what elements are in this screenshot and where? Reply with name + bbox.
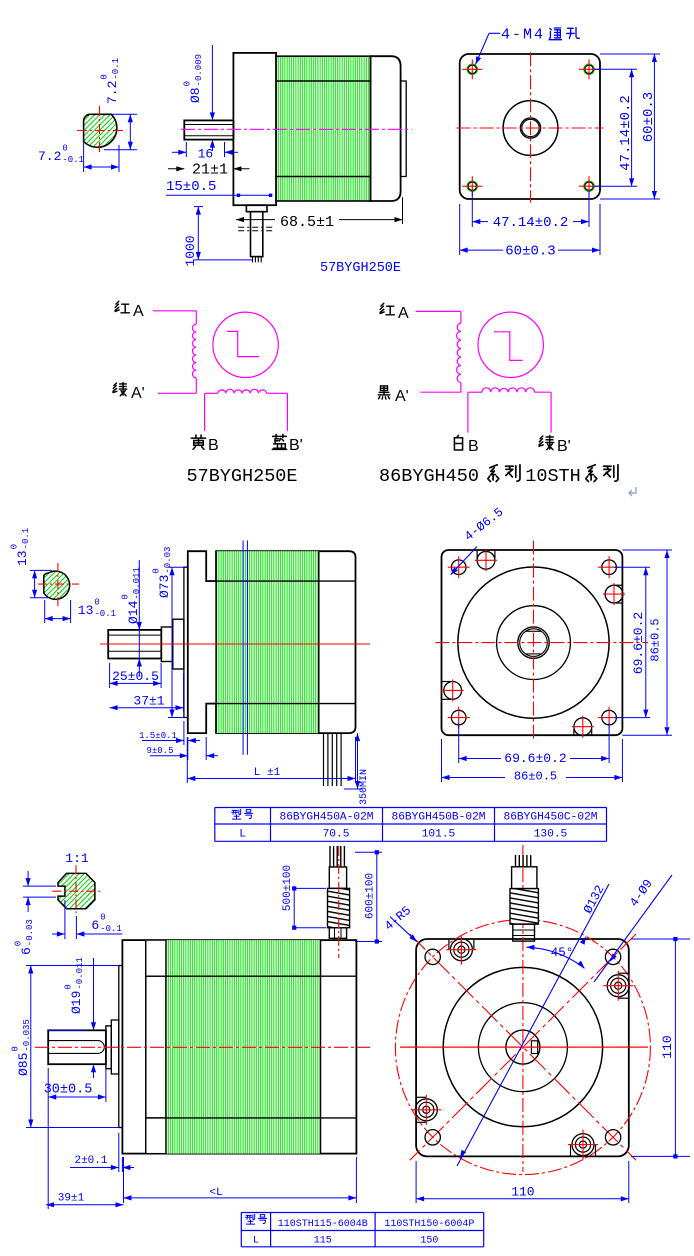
86 front view: 4 corner pocket holes [476,550,478,558]
dimension 37±1 [183,673,185,712]
svg-text:115: 115 [314,1236,332,1247]
svg-text:9±0.5: 9±0.5 [146,746,173,756]
86 front view shaft hole with flats [518,627,549,658]
110 front view cable: wires [515,855,517,867]
110 front cable tube [512,867,537,889]
dimension 13 0/-0.1 horizontal [44,600,46,623]
svg-text:0: 0 [11,1046,21,1051]
svg-text:0: 0 [152,568,162,573]
svg-text:-0.035: -0.035 [22,1019,32,1051]
86 side view: pilot spigot ring [184,567,188,717]
svg-text:6: 6 [91,918,99,933]
svg-text:0: 0 [10,544,20,549]
86 front view: flange square [442,550,623,735]
svg-text:150: 150 [420,1236,438,1247]
svg-text:13: 13 [78,603,94,618]
57 front view red center lines [457,127,604,129]
rotor circle wiring diagram 1 [213,312,278,377]
svg-text:37±1: 37±1 [133,694,164,709]
wiring diagram 2: phase A coil (magenta) [416,310,461,312]
110 side view: shaft [48,1030,106,1064]
dimension 7.2 0/-0.1 horizontal (below section) [83,142,85,173]
svg-text:-0.03: -0.03 [25,919,35,946]
110 side view: plate joint and corner boxes [145,940,147,1154]
svg-text:B: B [208,437,219,454]
86 front view circles [458,567,609,718]
110 front view red bolt circle [395,920,650,1175]
svg-text:69.6±0.2: 69.6±0.2 [631,612,646,674]
svg-text:57BYGH250E: 57BYGH250E [320,261,401,276]
svg-text:-0.1: -0.1 [21,528,31,550]
svg-text:A: A [133,303,144,320]
svg-text:B': B' [289,437,303,454]
dimension 86±0.5 horizontal [441,739,443,782]
svg-text:7.2: 7.2 [38,149,61,164]
svg-text:10STH: 10STH [525,466,581,487]
57 cable wires [252,257,254,263]
svg-text:0: 0 [14,941,24,946]
57 side view: cable tube [251,212,263,257]
110 front view: 4 plain holes diam9 on diagonals [425,949,440,964]
110 side cable bottom fitting [329,928,346,939]
svg-text:110: 110 [511,1184,534,1199]
dimension 1000 (cable length) [194,206,203,208]
57 front view: pilot circle [503,101,558,156]
center lines 110 shaft section [52,890,101,892]
svg-text:0: 0 [62,144,67,154]
svg-text:350MIN: 350MIN [359,769,370,805]
57 side view: shaft [184,120,233,139]
86 front view: 4 plain holes 6.5 [451,560,466,575]
110 side view: pilot spigot [119,966,123,1128]
svg-text:B': B' [557,438,571,455]
svg-text:110: 110 [660,1035,675,1058]
svg-text:1.5±0.1: 1.5±0.1 [139,731,177,741]
dimension 21±1 (black) [168,168,184,170]
table 1 : 86 motor models [215,807,607,809]
center lines 86 shaft section [38,583,79,585]
svg-text:1000: 1000 [183,235,198,266]
dimension 86±0.5 vertical [622,549,672,551]
dimension 45 degrees arc [526,947,584,968]
svg-text:A: A [398,305,409,322]
svg-text:Ø85: Ø85 [16,1053,31,1076]
dimension 7.2 0/-0.1 vertical (right of section) [111,113,137,115]
svg-text:0: 0 [121,594,131,599]
57 front view: flange square [460,54,600,199]
dimension 1.5±0.1 [183,721,185,745]
86 side view blue section lines [242,540,244,754]
svg-text:600±100: 600±100 [365,873,377,919]
svg-text:21±1: 21±1 [192,162,228,179]
110 side view cable: wires [329,846,331,867]
labels diagram 1 [115,301,129,313]
table 2 : 110 motor models [241,1212,483,1214]
dimension L ±1 (86 length) [186,737,188,783]
110 side view: stator green hatch [166,940,321,1154]
dimension 25±0.5 [109,663,111,688]
110 shaft cross-section octagon with keyway notch [58,873,95,908]
dimension L (110 length) [123,1157,125,1203]
svg-text:-0.03: -0.03 [163,547,173,574]
svg-text:130.5: 130.5 [534,829,568,841]
svg-text:45°: 45° [551,946,574,960]
svg-text:110STH115-6004B: 110STH115-6004B [278,1219,368,1230]
110 side view division lines [146,975,357,977]
leader 4-M4 through-hole label [489,32,500,34]
110 side cable hatched sleeve [328,888,350,927]
svg-text:30±0.5: 30±0.5 [44,1083,93,1098]
110 front view shaft hexagon + keyway [506,1030,540,1064]
86 side view red center line [100,643,370,645]
svg-text:47.14±0.2: 47.14±0.2 [618,95,634,171]
86 side view: body outline with corner notches [188,551,356,733]
svg-text:86BYGH450C-02M: 86BYGH450C-02M [504,812,598,824]
svg-text:0: 0 [100,74,110,79]
dimension diameter 8 -0.009 (shaft) [211,45,213,118]
svg-text:0: 0 [94,598,99,608]
wiring diagram 2: phase B coil [468,391,482,393]
110 side view red center line [35,1046,370,1048]
svg-text:39±1: 39±1 [58,1193,85,1205]
57 side view: stator body with green lamination hatch [276,56,370,201]
svg-text:57BYGH250E: 57BYGH250E [186,466,297,487]
110 front view red center lines [400,1046,648,1048]
110 front cable bottom fitting [513,924,535,941]
labels diagram 2 [380,303,394,315]
svg-text:<L: <L [209,1187,222,1199]
57 side view: rear hub strip [401,81,407,177]
svg-text:13: 13 [15,550,30,566]
110 front view: 4 pocket holes with washers [448,940,450,950]
wiring diagram 1: phase A coil (magenta) [153,310,196,312]
wiring diagram 1: phase B coil [205,392,218,394]
svg-text:L ±1: L ±1 [254,767,281,779]
86 shaft cross-section (flatted circle, hatched) [44,571,70,599]
svg-text:60±0.3: 60±0.3 [641,92,657,142]
dimension 68.5±1 (black) [402,197,404,224]
dimension diameter 19 0/-0.011 [48,1029,88,1031]
dimension 110 vertical [631,938,690,940]
dimension diameter 14 0/-0.011 [138,560,140,676]
center lines of shaft section [77,130,126,132]
svg-text:A': A' [131,385,145,402]
svg-text:2±0.1: 2±0.1 [74,1155,107,1167]
svg-text:110STH150-6004P: 110STH150-6004P [384,1219,474,1230]
svg-text:25±0.5: 25±0.5 [112,669,159,684]
dimension 30±0.5 [47,1068,49,1102]
svg-text:500±100: 500±100 [282,865,294,911]
86 side view lead wires [323,733,325,786]
svg-text:86BYGH450B-02M: 86BYGH450B-02M [392,812,486,824]
dimension 6 0/-0.1 (keyway width) [64,900,66,939]
dimension diameter 85 0/-0.035 [26,965,119,967]
57 motor shaft cross-section (flatted circle, hatched) [84,114,117,147]
dimension 47.14±0.2 vertical [594,68,637,70]
57 side view: stator division lines [276,80,370,82]
dimension 600±100 [355,851,382,853]
dimension 350MIN (wires) [344,788,362,790]
svg-text:Ø73: Ø73 [157,575,172,598]
svg-text:70.5: 70.5 [323,829,350,841]
dimension 110 horizontal [415,1161,417,1203]
svg-text:7.2: 7.2 [105,81,120,104]
svg-text:L: L [239,829,246,841]
leader 4-diam9 [594,875,672,982]
svg-text:4-M4: 4-M4 [501,27,545,44]
dimension 60±0.3 vertical [600,53,660,55]
svg-text:86BYGH450: 86BYGH450 [379,466,479,487]
rotor circle wiring diagram 2 [478,312,543,377]
svg-text:86BYGH450A-02M: 86BYGH450A-02M [280,812,374,824]
57 front view: shaft hole [520,118,540,138]
dimension diameter 73 0/-0.03 [168,566,186,568]
svg-text:0: 0 [100,913,105,923]
svg-text:-0.011: -0.011 [75,957,85,989]
svg-text:0: 0 [183,81,193,86]
110 front view red diagonals [410,934,636,1160]
86 side view: shaft [108,630,161,659]
svg-text:86±0.5: 86±0.5 [514,770,557,784]
svg-text:-0.1: -0.1 [94,609,116,619]
svg-text:-0.1: -0.1 [62,155,84,165]
leader 4-R5 [390,917,417,942]
svg-text:A': A' [395,388,409,405]
dimension 39±1 [47,1102,49,1209]
svg-text:B: B [468,438,479,455]
svg-text:6: 6 [19,947,34,955]
dimension 16 (shaft) [185,142,187,157]
svg-text:Ø14: Ø14 [126,600,141,624]
svg-text:-0.011: -0.011 [132,567,142,599]
leader diam132 [457,884,609,1166]
svg-text:1:1: 1:1 [65,851,89,866]
svg-text:Ø19: Ø19 [69,991,84,1014]
svg-text:101.5: 101.5 [422,829,456,841]
svg-text:86±0.5: 86±0.5 [649,618,663,661]
110 front view circles [443,967,602,1126]
svg-text:69.6±0.2: 69.6±0.2 [504,751,566,766]
86 side view: shaft boss steps [161,627,173,662]
red center line of side cable [338,846,340,958]
86 side view: stator green hatch [216,551,319,733]
110 front view: flange square [416,939,629,1156]
57 side view: front end bell plate [233,53,276,205]
110 front cable hatched sleeve [510,889,538,925]
110 shaft keyway with round end [48,1040,98,1042]
dimension 60±0.3 horizontal [459,204,461,255]
57 cable dashed break lines [238,226,274,228]
svg-text:16: 16 [198,147,214,162]
dimension 69.6±0.2 horizontal (86) [458,723,460,763]
dimension 13 0/-0.1 vertical [30,569,52,571]
57 front view: 4 mounting holes M4 with green circles [467,64,477,74]
dimension 9±0.5 [205,737,207,760]
svg-text:47.14±0.2: 47.14±0.2 [493,215,569,231]
svg-text:L: L [253,1236,259,1247]
svg-text:0: 0 [64,984,74,989]
svg-text:-0.009: -0.009 [194,54,204,86]
dimension 2±0.1 [118,1133,120,1172]
svg-text:68.5±1: 68.5±1 [280,214,334,231]
svg-text:15±0.5: 15±0.5 [166,179,216,195]
dimension 6 0/-0.03 (left, keyway) [23,885,56,887]
svg-text:-0.1: -0.1 [111,58,121,80]
dimension 500±100 [296,887,326,889]
57 side view magenta center line [181,128,412,130]
dimension 47.14±0.2 horizontal [471,191,473,227]
dimension 69.6±0.2 vertical (86) [614,566,650,568]
svg-text:-0.1: -0.1 [100,924,122,934]
86 side view division lines [206,580,355,582]
86 front view red center lines [435,642,648,644]
110 side cable tube [329,867,346,888]
return mark [629,487,636,496]
57 side view: cable connector block [246,205,267,212]
svg-text:60±0.3: 60±0.3 [505,244,555,260]
110 side view: shaft boss [106,1026,111,1069]
110 side view: body outline [122,940,356,1154]
57 side view: rear end bell [371,56,401,201]
svg-text:Ø8: Ø8 [188,87,203,103]
